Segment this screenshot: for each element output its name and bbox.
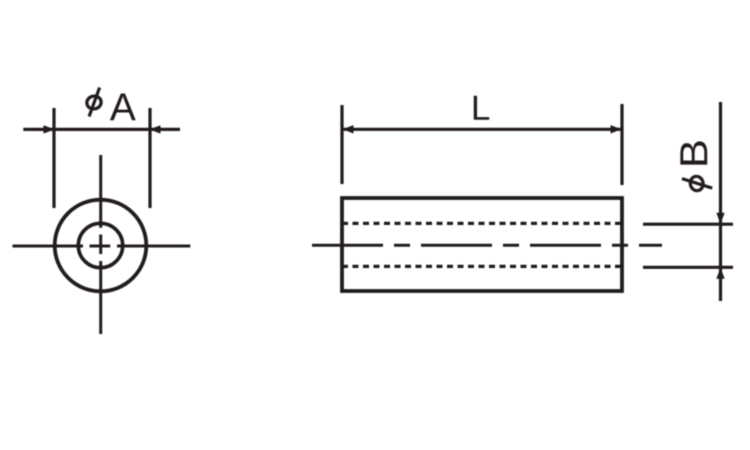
label B (rotated) xyxy=(680,141,707,164)
arrowhead L left (points left) xyxy=(343,125,354,133)
arrowhead L right (points right) xyxy=(611,125,622,133)
extension line left (φA) xyxy=(52,108,55,208)
arrowhead φA right (points left) xyxy=(150,125,161,133)
extension line bottom (φB) xyxy=(643,266,733,269)
φ symbol (of φA) xyxy=(86,88,103,117)
axis centerline (side view) xyxy=(312,244,662,247)
hidden line bottom (hole) xyxy=(342,265,622,268)
inner circle (hole, end view) xyxy=(78,223,122,267)
dimension line φA xyxy=(23,128,180,131)
side view body rectangle xyxy=(342,198,622,291)
φ symbol (of φB, rotated) xyxy=(682,175,712,192)
extension line right (L) xyxy=(620,104,623,185)
dimension line φB (vertical) xyxy=(719,102,722,301)
extension line right (φA) xyxy=(148,108,151,208)
extension line left (L) xyxy=(340,105,343,184)
dimension line L xyxy=(343,128,621,131)
label L xyxy=(474,96,489,120)
arrowhead φB bottom (points up) xyxy=(716,268,724,279)
hidden line top (hole) xyxy=(342,222,622,225)
vertical center line (end view) xyxy=(99,155,102,334)
horizontal center line (end view) xyxy=(13,245,191,248)
extension line top (φB) xyxy=(643,223,733,226)
label A xyxy=(110,93,136,120)
arrowhead φA left (points right) xyxy=(44,125,55,133)
outer circle (spacer OD, end view) xyxy=(55,200,147,292)
arrowhead φB top (points down) xyxy=(716,213,724,224)
